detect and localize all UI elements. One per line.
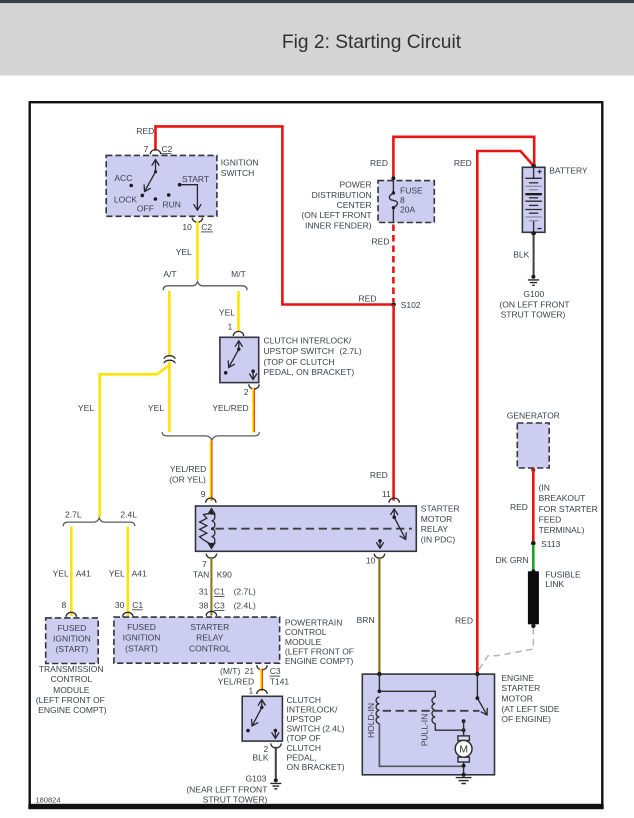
svg-text:FEED: FEED xyxy=(539,514,562,524)
svg-text:RELAY: RELAY xyxy=(421,524,449,534)
svg-text:IGNITION: IGNITION xyxy=(53,633,91,643)
wire YEL 2.4L branch (to PCM pin 30) xyxy=(127,527,130,616)
svg-text:ENGINE: ENGINE xyxy=(501,673,534,683)
svg-text:PULL-IN: PULL-IN xyxy=(419,714,429,747)
svg-text:8: 8 xyxy=(400,195,405,205)
svg-text:FUSED: FUSED xyxy=(57,623,86,633)
svg-text:RED: RED xyxy=(455,615,473,625)
power distribution center label xyxy=(301,180,371,231)
svg-text:(IN PDC): (IN PDC) xyxy=(421,535,456,545)
svg-text:CONTROL: CONTROL xyxy=(51,674,93,684)
svg-text:1: 1 xyxy=(248,686,253,696)
svg-text:TRANSMISSION: TRANSMISSION xyxy=(39,664,104,674)
svg-text:RED: RED xyxy=(372,237,390,247)
svg-text:POWERTRAIN: POWERTRAIN xyxy=(285,617,342,627)
svg-text:BLK: BLK xyxy=(513,249,529,259)
svg-text:ACC: ACC xyxy=(114,173,132,183)
node A/T M/T split brace xyxy=(163,269,247,290)
svg-text:T141: T141 xyxy=(270,677,290,687)
label G103 (NEAR LEFT FRONT STRUT TOWER) xyxy=(186,774,267,805)
wire RED dashed (fuse to S102) xyxy=(392,225,395,303)
svg-text:2: 2 xyxy=(244,387,249,397)
label (IN BREAKOUT FOR STARTER FEED TERMINAL) xyxy=(539,483,598,535)
pin 7 xyxy=(202,554,217,569)
svg-text:RUN: RUN xyxy=(163,200,181,210)
ground G100 xyxy=(528,275,539,286)
svg-text:POWER: POWER xyxy=(339,180,371,190)
svg-text:UPSTOP SWITCH: UPSTOP SWITCH xyxy=(264,346,335,356)
svg-text:CLUTCH: CLUTCH xyxy=(287,695,321,705)
svg-text:C3: C3 xyxy=(270,666,281,676)
battery xyxy=(522,164,545,236)
svg-text:LINK: LINK xyxy=(545,579,564,589)
starter motor relay xyxy=(196,506,417,551)
svg-text:C3: C3 xyxy=(214,601,225,611)
svg-text:STRUT TOWER): STRUT TOWER) xyxy=(501,309,566,319)
svg-text:(TOP OF: (TOP OF xyxy=(287,733,321,743)
svg-text:(LEFT FRONT OF: (LEFT FRONT OF xyxy=(285,647,354,657)
svg-text:YEL: YEL xyxy=(78,403,94,413)
label YEL/RED (OR YEL) xyxy=(169,464,206,484)
fuse 8 20A xyxy=(378,176,434,222)
svg-text:RED: RED xyxy=(370,158,388,168)
svg-text:K90: K90 xyxy=(217,570,232,580)
svg-text:ENGINE COMPT): ENGINE COMPT) xyxy=(285,656,354,666)
label CLUTCH INTERLOCK/UPSTOP SWITCH (2.4L) xyxy=(287,695,345,772)
svg-text:(OR YEL): (OR YEL) xyxy=(169,474,206,484)
svg-text:MODULE: MODULE xyxy=(53,685,90,695)
svg-text:INTERLOCK/: INTERLOCK/ xyxy=(287,704,339,714)
svg-text:UPSTOP: UPSTOP xyxy=(287,714,322,724)
svg-text:RED: RED xyxy=(454,158,472,168)
pin 21 C3 (M/T) xyxy=(220,665,281,676)
header gray banner xyxy=(0,3,634,75)
svg-text:STARTER: STARTER xyxy=(501,683,540,693)
svg-text:(ON LEFT FRONT: (ON LEFT FRONT xyxy=(499,300,569,310)
svg-text:SWITCH: SWITCH xyxy=(287,724,321,734)
svg-text:ENGINE COMPT): ENGINE COMPT) xyxy=(38,705,107,715)
svg-text:BLK: BLK xyxy=(252,753,268,763)
node 2.7L/2.4L split brace xyxy=(63,510,137,527)
svg-text:YEL: YEL xyxy=(148,403,164,413)
wire RED (S102 to relay pin 11) xyxy=(392,305,395,501)
svg-text:FUSED: FUSED xyxy=(127,622,156,632)
svg-text:HOLD-IN: HOLD-IN xyxy=(366,703,376,738)
svg-text:(2.7L): (2.7L) xyxy=(340,346,362,356)
svg-text:YEL: YEL xyxy=(109,569,125,579)
pin 10 C2 xyxy=(182,218,212,232)
node merge brace (A/T + M/T) xyxy=(162,432,259,440)
svg-text:(ON LEFT FRONT: (ON LEFT FRONT xyxy=(301,210,371,220)
svg-text:30: 30 xyxy=(115,600,125,610)
fusible link xyxy=(528,569,581,628)
svg-text:SWITCH: SWITCH xyxy=(221,168,255,178)
svg-text:STARTER: STARTER xyxy=(421,503,460,513)
label G100 (ON LEFT FRONT STRUT TOWER) xyxy=(499,289,569,319)
svg-text:C2: C2 xyxy=(162,144,173,154)
powertrain control module xyxy=(114,617,280,663)
svg-text:Fig 2: Starting Circuit: Fig 2: Starting Circuit xyxy=(282,32,462,53)
wire YEL (ignition pin10 to split) xyxy=(196,222,199,281)
wire RED starter feed tap (battery to starter motor) xyxy=(477,151,533,673)
wire TAN (pin 7 to PCM) xyxy=(210,557,212,616)
svg-text:STARTER: STARTER xyxy=(190,622,229,632)
wire dashed breakout (fusible link to starter feed) xyxy=(478,628,533,671)
svg-text:TERMINAL): TERMINAL) xyxy=(539,525,585,535)
svg-text:(2.7L): (2.7L) xyxy=(234,587,256,597)
svg-text:LOCK: LOCK xyxy=(114,195,137,205)
wire RED (generator to S113) xyxy=(532,469,535,543)
wire YEL/RED (PCM pin 21 to clutch switch 2.4L) xyxy=(261,669,262,692)
ignition switch xyxy=(106,155,217,216)
label TRANSMISSION CONTROL MODULE xyxy=(36,664,107,715)
svg-text:G103: G103 xyxy=(246,774,267,784)
wire YEL A/T branch xyxy=(168,291,171,356)
svg-text:INNER FENDER): INNER FENDER) xyxy=(305,220,372,230)
svg-text:(START): (START) xyxy=(125,644,158,654)
svg-text:RED: RED xyxy=(510,502,528,512)
splice break symbol xyxy=(164,356,175,364)
svg-text:OF ENGINE): OF ENGINE) xyxy=(501,714,551,724)
svg-text:M: M xyxy=(459,743,468,755)
svg-text:C1: C1 xyxy=(214,587,225,597)
ground G103 xyxy=(270,778,281,789)
svg-text:10: 10 xyxy=(366,555,376,565)
clutch interlock/upstop switch (2.4L) xyxy=(242,696,282,741)
pin 7 C2 xyxy=(144,144,173,154)
svg-text:RED: RED xyxy=(359,294,377,304)
pin 9 xyxy=(201,489,216,503)
transmission control module xyxy=(46,618,98,664)
svg-text:MOTOR: MOTOR xyxy=(501,694,532,704)
wire DK GRN (S113 to fusible link) xyxy=(532,545,535,571)
svg-text:38: 38 xyxy=(199,601,209,611)
svg-text:(AT LEFT SIDE: (AT LEFT SIDE xyxy=(501,704,559,714)
svg-text:A/T: A/T xyxy=(163,269,176,279)
svg-text:START: START xyxy=(182,174,209,184)
svg-text:9: 9 xyxy=(201,489,206,499)
svg-text:(START): (START) xyxy=(56,644,89,654)
wire BLK (battery to G100) xyxy=(533,235,535,276)
svg-text:8: 8 xyxy=(61,600,66,610)
svg-text:BRN: BRN xyxy=(357,615,375,625)
wire BRN (pin 10 to starter motor) xyxy=(378,557,380,673)
svg-text:STRUT TOWER): STRUT TOWER) xyxy=(203,794,268,804)
label YEL A41 (2.7L) xyxy=(53,569,91,579)
label POWERTRAIN CONTROL MODULE xyxy=(285,617,354,666)
svg-text:2.7L: 2.7L xyxy=(65,510,82,520)
svg-text:11: 11 xyxy=(382,489,391,499)
svg-text:BATTERY: BATTERY xyxy=(549,166,588,176)
svg-text:M/T: M/T xyxy=(231,269,246,279)
label ENGINE STARTER MOTOR (AT LEFT SIDE OF ENGINE) xyxy=(501,673,559,724)
svg-text:GENERATOR: GENERATOR xyxy=(507,411,560,421)
svg-text:IGNITION: IGNITION xyxy=(123,632,161,642)
wire RED ignition feed (pin7 to S102) xyxy=(156,126,392,304)
svg-text:CONTROL: CONTROL xyxy=(189,644,231,654)
wire RED fuse feed (fuse top to battery) xyxy=(393,137,534,178)
svg-text:(LEFT FRONT OF: (LEFT FRONT OF xyxy=(36,695,105,705)
svg-text:FOR STARTER: FOR STARTER xyxy=(539,504,598,514)
generator xyxy=(507,411,560,473)
svg-text:YEL: YEL xyxy=(219,307,235,317)
svg-text:(IN: (IN xyxy=(539,483,550,493)
pin 8 xyxy=(61,600,76,617)
svg-text:CONTROL: CONTROL xyxy=(285,627,327,637)
pin 1 (2.7L switch) xyxy=(228,321,244,336)
label CLUTCH INTERLOCK/UPSTOP SWITCH (2.7L) xyxy=(264,336,362,378)
svg-text:RED: RED xyxy=(136,126,154,136)
node S102 xyxy=(391,300,421,310)
svg-text:CLUTCH: CLUTCH xyxy=(287,743,321,753)
svg-text:CLUTCH INTERLOCK/: CLUTCH INTERLOCK/ xyxy=(264,336,352,346)
pin 1 (2.4L switch) xyxy=(248,686,267,696)
svg-text:(M/T): (M/T) xyxy=(220,666,240,676)
svg-text:ON BRACKET): ON BRACKET) xyxy=(287,762,345,772)
label IGNITION SWITCH xyxy=(221,157,259,178)
node S113 xyxy=(531,539,561,549)
pin 2 (2.7L switch) xyxy=(244,384,259,396)
svg-text:YEL: YEL xyxy=(176,247,192,257)
wire YEL/RED (2.7L switch to merge) xyxy=(253,388,254,433)
svg-text:21: 21 xyxy=(245,666,255,676)
svg-text:DK GRN: DK GRN xyxy=(496,555,529,565)
svg-text:7: 7 xyxy=(202,559,207,569)
svg-text:MOTOR: MOTOR xyxy=(421,514,452,524)
svg-text:2.4L: 2.4L xyxy=(120,510,137,520)
pin 38 C3 (2.4L) xyxy=(199,601,256,611)
svg-text:A41: A41 xyxy=(132,569,147,579)
svg-text:10: 10 xyxy=(182,222,192,232)
svg-text:OFF: OFF xyxy=(137,204,154,214)
svg-text:7: 7 xyxy=(144,144,149,154)
pin arc at PCM (31/38) xyxy=(206,611,216,616)
svg-text:CENTER: CENTER xyxy=(337,200,372,210)
svg-text:A41: A41 xyxy=(76,569,91,579)
pin 31 C1 (2.7L) xyxy=(199,587,256,597)
pin 2 (2.4L switch) xyxy=(263,743,281,754)
header dark strip xyxy=(0,0,634,3)
svg-text:YEL/RED: YEL/RED xyxy=(170,464,206,474)
svg-text:C2: C2 xyxy=(201,222,212,232)
svg-text:RED: RED xyxy=(370,470,388,480)
wire YEL split to 2.7L/2.4L brace xyxy=(100,365,170,517)
engine starter motor xyxy=(362,672,494,775)
svg-text:TAN: TAN xyxy=(193,570,209,580)
svg-text:S113: S113 xyxy=(541,539,560,549)
svg-text:PEDAL, ON BRACKET): PEDAL, ON BRACKET) xyxy=(264,367,355,377)
label STARTER MOTOR RELAY (IN PDC) xyxy=(421,503,460,544)
svg-text:DISTRIBUTION: DISTRIBUTION xyxy=(312,190,372,200)
svg-text:(NEAR LEFT FRONT: (NEAR LEFT FRONT xyxy=(186,785,267,795)
svg-text:1: 1 xyxy=(228,321,233,331)
svg-text:31: 31 xyxy=(199,587,209,597)
svg-text:FUSE: FUSE xyxy=(400,186,423,196)
label YEL/RED T141 xyxy=(218,677,290,687)
ground (starter motor) xyxy=(456,773,472,784)
svg-text:180824: 180824 xyxy=(36,795,61,804)
svg-text:BREAKOUT: BREAKOUT xyxy=(539,493,586,503)
pin 30 C1 xyxy=(115,600,143,617)
svg-text:(2.4L): (2.4L) xyxy=(322,724,344,734)
wire YEL/RED (merge to relay pin 9) xyxy=(211,440,212,500)
pin 11 xyxy=(382,489,400,503)
label TAN K90 xyxy=(193,570,232,580)
wire BLK (pin 2 to G103) xyxy=(275,747,277,779)
wire YEL 2.7L branch (to TCM pin 8) xyxy=(70,527,73,616)
wire YEL M/T branch xyxy=(237,291,240,332)
svg-text:RELAY: RELAY xyxy=(196,632,224,642)
pin 10 xyxy=(366,554,385,566)
clutch interlock/upstop switch (2.7L) xyxy=(220,337,259,382)
svg-text:YEL/RED: YEL/RED xyxy=(212,403,248,413)
svg-text:(TOP OF CLUTCH: (TOP OF CLUTCH xyxy=(264,357,335,367)
svg-text:C1: C1 xyxy=(132,600,143,610)
wire YEL A/T branch lower xyxy=(168,362,171,433)
svg-text:(2.4L): (2.4L) xyxy=(234,601,256,611)
svg-text:MODULE: MODULE xyxy=(285,637,322,647)
svg-text:FUSIBLE: FUSIBLE xyxy=(545,570,581,580)
svg-text:S102: S102 xyxy=(401,300,421,310)
svg-text:YEL: YEL xyxy=(53,569,69,579)
svg-text:PEDAL,: PEDAL, xyxy=(287,752,317,762)
svg-text:20A: 20A xyxy=(400,205,415,215)
label YEL A41 (2.4L) xyxy=(109,569,147,579)
svg-text:IGNITION: IGNITION xyxy=(221,157,259,167)
svg-text:G100: G100 xyxy=(523,289,544,299)
diagram frame xyxy=(28,102,603,807)
